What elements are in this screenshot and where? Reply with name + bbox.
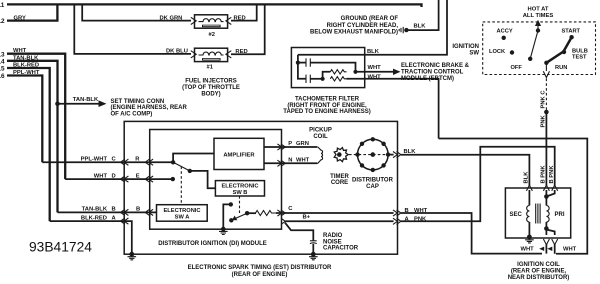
svg-text:WHT: WHT [296, 158, 310, 164]
wire radio capacitor stub [285, 223, 313, 241]
wire BLK tach filter output [298, 0, 447, 55]
svg-text:#2: #2 [209, 32, 215, 38]
wire row D WHT [65, 178, 173, 180]
svg-text:ELECTRONIC BRAKE &: ELECTRONIC BRAKE & [401, 63, 470, 69]
ground node row A [129, 252, 134, 257]
chevron row C module right edge [277, 210, 285, 216]
svg-text:16: 16 [0, 73, 5, 80]
svg-text:BODY): BODY) [201, 92, 220, 98]
svg-text:DK GRN: DK GRN [160, 15, 183, 21]
fuel injector 1 connector chevron right [226, 51, 231, 58]
fuel injector 1 coil winding [199, 52, 224, 55]
svg-text:ELECTRONIC: ELECTRONIC [164, 208, 201, 214]
svg-text:WHT: WHT [521, 247, 535, 253]
svg-text:(REAR OF ENGINE): (REAR OF ENGINE) [232, 272, 288, 278]
wire coil PRI bottom outputs [546, 229, 554, 236]
wire resistor to module edge [276, 212, 394, 214]
wire row A BLK-RED to ground [50, 221, 132, 254]
svg-text:B PNK: B PNK [549, 165, 555, 184]
chevron N module edge [277, 160, 285, 166]
chevron row C box right edge [393, 210, 401, 216]
svg-text:GRN: GRN [296, 141, 309, 147]
svg-text:E: E [136, 173, 140, 179]
node START contact [569, 35, 573, 39]
svg-text:WHT: WHT [368, 75, 382, 81]
resistor EST output [256, 211, 277, 216]
chevron coil PNK input left [543, 185, 549, 191]
node RUN contact [544, 61, 548, 65]
ground symbol module [219, 231, 228, 234]
svg-text:MODULE (EBTCM): MODULE (EBTCM) [401, 76, 454, 82]
wire WHT pin 13 [7, 54, 65, 179]
svg-text:14: 14 [0, 58, 5, 65]
resistor R1 tach filter [330, 70, 346, 74]
node ACCY contact [502, 36, 506, 40]
svg-text:DK BLU: DK BLU [166, 48, 188, 54]
tachometer filter box [291, 48, 364, 88]
svg-text:RADIO: RADIO [323, 233, 343, 239]
node tach filter dot1 [296, 61, 300, 65]
svg-text:N: N [288, 158, 292, 164]
svg-text:START: START [562, 29, 581, 35]
node switch2 upper contact [229, 202, 233, 206]
pickup coil winding [317, 147, 323, 163]
svg-text:SW: SW [469, 50, 479, 56]
svg-text:P: P [288, 141, 292, 147]
wire C1 to dot2 [310, 63, 355, 72]
wire coil PRI inputs merge [546, 190, 554, 197]
svg-text:DISTRIBUTOR: DISTRIBUTOR [352, 178, 394, 184]
arrow coil WHT right [547, 247, 552, 251]
svg-text:B+: B+ [303, 215, 311, 221]
fuel injector 1 body [195, 48, 228, 61]
distributor cap circle [358, 139, 389, 170]
svg-text:NEAR DISTRIBUTOR): NEAR DISTRIBUTOR) [508, 275, 570, 281]
svg-text:B: B [136, 207, 140, 213]
wire coil WHT right down [554, 244, 556, 254]
svg-text:B PNK: B PNK [540, 165, 546, 184]
dashed control SW B to switch2 [239, 196, 241, 214]
chevron row C box edge [121, 159, 129, 165]
DI module box [150, 130, 282, 230]
svg-text:(REAR OF ENGINE,: (REAR OF ENGINE, [511, 269, 567, 275]
wire TAN-BLK pin 14 [7, 61, 58, 213]
capacitor C2 tach filter [306, 75, 310, 83]
wire P GRN amplifier to pickup [264, 146, 317, 148]
wire coil WHT left down [545, 244, 547, 254]
svg-text:SW A: SW A [175, 215, 190, 221]
wire switch2 to resistor [247, 212, 256, 214]
ground symbol row A [128, 257, 137, 260]
coil core lines [536, 204, 540, 224]
node coil PRI bottom dot [544, 226, 549, 231]
distributor cap center dot [371, 152, 376, 157]
wire B WHT to coil [401, 213, 542, 254]
node tach filter dot3 [321, 77, 325, 81]
svg-text:ALL TIMES: ALL TIMES [523, 13, 554, 19]
dashed control SW A to switch1 [180, 167, 182, 205]
svg-text:OF A/C COMP): OF A/C COMP) [111, 111, 153, 117]
wire coil PRI vertical [545, 197, 547, 229]
wire RED injector 2 to bus [231, 4, 257, 20]
node switch1 common [188, 169, 192, 173]
wire A PNK up and over to coil [401, 147, 555, 222]
switch2 lever with arrowhead [236, 213, 248, 218]
ground symbol radio capacitor [309, 257, 318, 260]
svg-text:WHT: WHT [368, 65, 382, 71]
node module ground dot [221, 227, 226, 232]
svg-text:(RIGHT FRONT OF ENGINE,: (RIGHT FRONT OF ENGINE, [287, 103, 367, 109]
wire switch1 common to SW B [190, 171, 216, 188]
wire PPL-WHT pin 16 [7, 76, 42, 163]
svg-text:SEC: SEC [510, 212, 523, 218]
fuel injector 1 connector chevron left [191, 51, 196, 58]
chevron row C module edge [145, 159, 153, 165]
wire C2 to dot3 [310, 78, 322, 80]
svg-text:LOCK: LOCK [489, 49, 506, 55]
fuel injector 2 body [195, 15, 228, 28]
wire GRY pin 12 [7, 4, 57, 20]
wire coil SEC bottom to ground [528, 222, 530, 237]
svg-text:12: 12 [0, 18, 5, 25]
node PNK junction dot [544, 110, 549, 115]
node switch2 throw contact [245, 211, 249, 215]
svg-text:BELOW EXHAUST MANIFOLD): BELOW EXHAUST MANIFOLD) [310, 29, 398, 35]
wire row B TAN-BLK [58, 211, 157, 213]
chevron BLK box right edge [393, 152, 401, 158]
coil SEC winding [527, 206, 530, 223]
svg-text:CORE: CORE [331, 180, 348, 186]
svg-text:SW B: SW B [233, 190, 248, 196]
svg-text:TRACTION CONTROL: TRACTION CONTROL [401, 69, 464, 75]
svg-text:HOT AT: HOT AT [528, 7, 549, 13]
timer core gear [334, 148, 348, 162]
wire C2 row left [298, 63, 306, 79]
node set timing junction dot [55, 101, 60, 106]
wire BLK-RED pin 15 [7, 68, 50, 221]
svg-text:BLK: BLK [367, 49, 380, 55]
chevron P module edge [277, 144, 285, 150]
ignition switch dashed box [483, 22, 596, 75]
chevron coil BLK input [526, 185, 532, 191]
wire DK BLU drop from bus [74, 4, 191, 54]
wire R1 left lead [323, 72, 331, 79]
svg-text:RUN: RUN [555, 65, 567, 71]
svg-text:TACHOMETER FILTER: TACHOMETER FILTER [295, 97, 360, 103]
ignition coil box [505, 188, 570, 238]
svg-text:PICKUP: PICKUP [309, 128, 332, 134]
wire coil SEC top [528, 190, 530, 206]
distributor cap terminal dots [371, 137, 375, 141]
svg-text:ELECTRONIC SPARK TIMING (EST): ELECTRONIC SPARK TIMING (EST) DISTRIBUTO… [188, 265, 332, 271]
wire R contact to amplifier [173, 154, 214, 163]
svg-text:TAN-BLK: TAN-BLK [73, 97, 99, 103]
svg-text:OFF: OFF [511, 65, 523, 71]
svg-text:(TOP OF THROTTLE: (TOP OF THROTTLE [182, 85, 240, 91]
fuel injector 2 connector chevron right [226, 17, 231, 24]
svg-text:AMPLIFIER: AMPLIFIER [223, 152, 255, 158]
svg-text:TIMER: TIMER [330, 174, 349, 180]
svg-text:CAPACITOR: CAPACITOR [323, 246, 359, 252]
svg-text:TEST: TEST [572, 54, 587, 60]
radio noise capacitor plates [310, 240, 317, 242]
node radio capacitor ground dot [311, 252, 316, 257]
chevron row A box edge [121, 218, 129, 224]
svg-text:PNK: PNK [541, 114, 547, 127]
dashed rotor line [349, 154, 387, 156]
electronic sw A box [157, 205, 208, 222]
electronic sw B box [215, 181, 264, 196]
wire RED injector 1 to bus [231, 4, 265, 54]
wire BLK to coil [401, 155, 529, 186]
svg-text:WHT: WHT [563, 247, 577, 253]
svg-text:ELECTRONIC: ELECTRONIC [222, 184, 259, 190]
node BULB TEST contact [562, 50, 566, 54]
wire DK GRN drop from bus [82, 4, 191, 20]
svg-text:TAPED TO ENGINE HARNESS): TAPED TO ENGINE HARNESS) [283, 109, 370, 115]
wire pin 11 bus [7, 4, 422, 7]
svg-text:RIGHT CYLINDER HEAD,: RIGHT CYLINDER HEAD, [327, 23, 399, 29]
chevron coil output right [552, 239, 558, 245]
svg-text:GROUND (REAR OF: GROUND (REAR OF [341, 16, 399, 22]
wire WHT EBTCM long net H1 [439, 139, 588, 254]
node OFF contact [528, 57, 532, 61]
svg-text:FUEL INJECTORS: FUEL INJECTORS [185, 79, 236, 85]
fuel injector 2 coil winding [199, 19, 224, 22]
wire BLK ground [408, 0, 438, 30]
fuel injector 2 connector chevron left [191, 17, 196, 24]
svg-text:PNK C: PNK C [541, 90, 547, 109]
node ignition switch pivot [536, 28, 540, 32]
capacitor C1 tach filter [298, 62, 306, 64]
ignition switch RUN output connector arrow down [545, 63, 547, 71]
node tach filter dot2 [353, 70, 357, 74]
wire PNK dashed from switch [545, 79, 547, 111]
svg-text:15: 15 [0, 66, 5, 73]
wire BLK distributor cap out [388, 154, 394, 156]
svg-text:ACCY: ACCY [497, 29, 513, 35]
fuel injector 2 core bar [202, 25, 221, 28]
chevron row D module edge [145, 176, 153, 182]
resistor R2 tach filter [330, 77, 346, 81]
wire WHT top to EBTCM with arrow [356, 71, 397, 73]
wire WHT bottom to EBTCM riser [347, 79, 439, 139]
chevron row B box edge [121, 209, 129, 215]
node switch2 lower contact [229, 218, 233, 222]
svg-text:13: 13 [0, 51, 5, 58]
chevron B+ module edge [281, 218, 285, 224]
svg-text:11: 11 [0, 2, 5, 9]
svg-text:NOISE: NOISE [323, 239, 342, 245]
svg-text:#1: #1 [207, 64, 214, 70]
set timing arrowhead [99, 100, 107, 107]
fuel injector 1 core bar [202, 58, 221, 61]
svg-text:PRI: PRI [555, 212, 565, 218]
node E dead contact [171, 177, 175, 181]
svg-text:93B41724: 93B41724 [29, 240, 92, 255]
wire B+ row [285, 220, 393, 222]
node switch1 R contact [171, 160, 175, 164]
chevron coil output left [543, 239, 549, 245]
wire N WHT amplifier to pickup [264, 162, 317, 164]
wire tach filter riser to BLK [297, 55, 299, 63]
chevron row B+ box right edge [393, 218, 401, 224]
node coil ground dot [527, 235, 532, 240]
node coil PRI top dot [544, 194, 549, 199]
wire set timing connector branch [58, 103, 100, 105]
timer core center dot [337, 152, 342, 157]
ground symbol coil [525, 240, 534, 243]
svg-text:COIL: COIL [313, 134, 328, 140]
svg-text:BLK: BLK [414, 23, 427, 29]
chevron coil PNK input right [552, 185, 558, 191]
chevron row D box edge [121, 176, 129, 182]
svg-text:SET TIMING CONN: SET TIMING CONN [111, 99, 165, 105]
wire switch2 upper contact to module ground [223, 204, 231, 229]
arrow coil WHT left [539, 247, 544, 251]
EST distributor outer box [124, 121, 397, 254]
ignition switch feed arrow up [537, 25, 539, 31]
node LOCK contact [510, 50, 514, 54]
svg-text:BLK: BLK [523, 171, 529, 184]
ignition switch lever to OFF [530, 31, 538, 59]
ignition switch thick lever RUN-START [546, 37, 571, 63]
ground symbol cylinder head [404, 28, 408, 32]
coil PRI winding [546, 206, 549, 223]
svg-text:CAP: CAP [366, 184, 379, 190]
amplifier box U1 [214, 138, 264, 169]
wire PNK to coil [545, 112, 547, 186]
wire radio capacitor to ground [312, 244, 314, 254]
switch1 lever [173, 162, 190, 171]
svg-text:DISTRIBUTOR IGNITION (DI) MODU: DISTRIBUTOR IGNITION (DI) MODULE [158, 241, 267, 247]
svg-text:IGNITION: IGNITION [452, 44, 479, 50]
svg-text:(ENGINE HARNESS, REAR: (ENGINE HARNESS, REAR [111, 105, 188, 111]
svg-text:IGNITION COIL: IGNITION COIL [517, 262, 560, 268]
wire row C PPL-WHT [42, 161, 173, 163]
chevron row B module edge [145, 209, 153, 215]
